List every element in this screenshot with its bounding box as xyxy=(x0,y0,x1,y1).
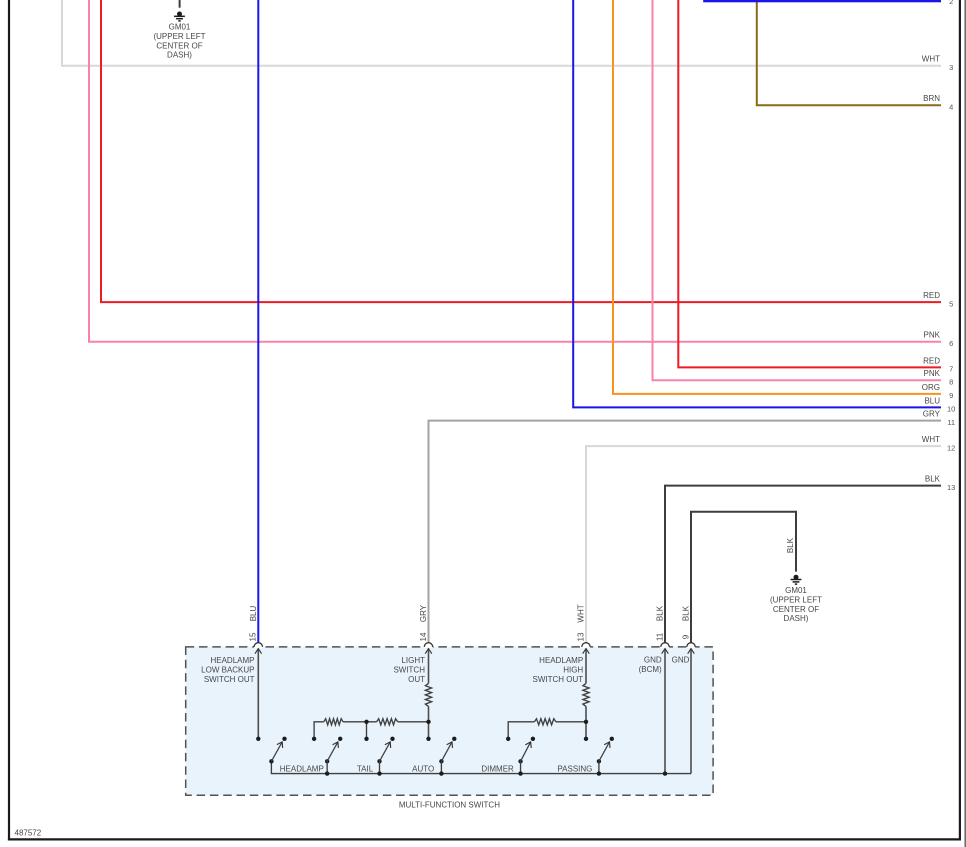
svg-text:3: 3 xyxy=(949,63,953,72)
junction bottom rail S3 auto xyxy=(377,771,381,775)
wire BLU row10 xyxy=(573,0,941,407)
svg-text:GM01: GM01 xyxy=(785,586,807,595)
svg-text:(UPPER LEFT: (UPPER LEFT xyxy=(153,32,205,41)
junction rail1 A xyxy=(364,720,368,724)
svg-text:RED: RED xyxy=(923,291,940,300)
switch S6 flash contact left xyxy=(584,737,588,741)
junction bottom rail S2 tail xyxy=(325,771,329,775)
switch S2 tail pivot xyxy=(325,759,329,763)
switch S1 headlamp contact right xyxy=(282,737,286,741)
wire BLU row2 bar xyxy=(703,0,941,2)
switch S3 auto lever xyxy=(380,742,391,761)
svg-text:6: 6 xyxy=(949,339,953,348)
switch S4 dimmer contact right xyxy=(452,737,456,741)
connector pin 15 bump xyxy=(254,646,262,648)
junction bottom rail pin11 xyxy=(663,771,667,775)
pin 14 internal wire lower xyxy=(428,706,430,738)
svg-text:GND: GND xyxy=(644,656,662,665)
svg-text:PNK: PNK xyxy=(924,331,941,340)
svg-text:11: 11 xyxy=(655,632,664,641)
svg-text:RED: RED xyxy=(923,356,940,365)
svg-text:HEADLAMP: HEADLAMP xyxy=(539,656,583,665)
svg-text:GM01: GM01 xyxy=(169,23,191,32)
svg-text:WHT: WHT xyxy=(577,604,586,622)
svg-text:2: 2 xyxy=(949,0,953,6)
wire ORG row9 xyxy=(613,0,941,394)
pin 13 internal wire lower xyxy=(585,706,587,738)
connector pin 14 bump xyxy=(424,646,432,648)
outer page edge right xyxy=(964,0,966,847)
switch S1 headlamp contact left xyxy=(256,737,260,741)
page border bottom xyxy=(8,838,961,840)
switch S1 headlamp pivot xyxy=(269,759,273,763)
pin 15 internal wire xyxy=(257,649,259,739)
wire rail1 right xyxy=(398,721,429,723)
svg-text:5: 5 xyxy=(949,299,953,308)
svg-text:DASH): DASH) xyxy=(167,51,192,60)
svg-text:(UPPER LEFT: (UPPER LEFT xyxy=(770,595,822,604)
svg-text:AUTO: AUTO xyxy=(412,764,434,773)
wire WHT row12 xyxy=(586,446,941,647)
svg-text:8: 8 xyxy=(949,378,953,387)
wire rail1 stub down xyxy=(366,722,368,739)
svg-text:7: 7 xyxy=(949,365,953,374)
svg-text:WHT: WHT xyxy=(922,435,940,444)
svg-text:MULTI-FUNCTION SWITCH: MULTI-FUNCTION SWITCH xyxy=(399,801,500,810)
resistor R3 horizontal xyxy=(324,719,343,725)
svg-text:BLU: BLU xyxy=(249,605,258,621)
wire BLK row13 xyxy=(665,486,941,647)
switch S3 auto pivot stub xyxy=(379,761,381,773)
wire rail2 left stub xyxy=(508,722,534,739)
svg-text:CENTER OF: CENTER OF xyxy=(773,605,819,614)
switch S4 dimmer pivot stub xyxy=(440,761,442,773)
wire bottom rail xyxy=(271,761,691,773)
switch S6 flash pivot stub xyxy=(598,761,600,773)
wire RED row7 xyxy=(678,0,941,367)
svg-text:PNK: PNK xyxy=(924,369,941,378)
switch S2 tail contact left xyxy=(312,737,316,741)
wire BRN row4 xyxy=(757,0,941,105)
switch S4 dimmer contact left xyxy=(426,737,430,741)
wire PNK row6 xyxy=(89,0,941,342)
junction bottom rail S4 dimmer xyxy=(439,771,443,775)
svg-text:LIGHT: LIGHT xyxy=(401,656,425,665)
svg-text:9: 9 xyxy=(681,634,690,639)
connector pin 13 bump xyxy=(582,646,590,648)
wire GRY row11 xyxy=(429,421,942,647)
ground GM01 right symbol xyxy=(794,575,799,580)
wire BLU pin15 xyxy=(257,0,259,647)
switch S6 flash contact right xyxy=(610,737,614,741)
wire rail1 left stub xyxy=(314,722,324,739)
wire rail2 right xyxy=(556,721,586,723)
svg-text:SWITCH OUT: SWITCH OUT xyxy=(533,675,584,684)
svg-text:GRY: GRY xyxy=(923,410,941,419)
connector pin 11 bump xyxy=(661,646,669,648)
svg-text:13: 13 xyxy=(576,632,585,641)
wire BLK to top GM01 xyxy=(179,0,181,8)
svg-text:14: 14 xyxy=(419,632,428,641)
junction bottom rail S5 passing xyxy=(518,771,522,775)
wire PNK row8 xyxy=(653,0,942,380)
switch S2 tail lever xyxy=(327,742,338,761)
resistor R5 horizontal xyxy=(534,719,556,725)
wire rail1 mid xyxy=(343,721,377,723)
pin 14 internal wire upper xyxy=(428,649,430,684)
resistor R1 vertical light switch xyxy=(425,683,431,706)
wire WHT row3 xyxy=(62,0,941,66)
switch S5 passing pivot xyxy=(518,759,522,763)
switch S5 passing pivot stub xyxy=(520,761,522,773)
svg-text:13: 13 xyxy=(947,483,955,492)
junction rail2 xyxy=(584,720,588,724)
svg-text:ORG: ORG xyxy=(922,383,940,392)
junction rail1 B xyxy=(426,720,430,724)
resistor R2 vertical headlamp high xyxy=(583,683,589,706)
page border right xyxy=(959,0,961,841)
svg-text:BLK: BLK xyxy=(682,605,691,621)
svg-text:HEADLAMP: HEADLAMP xyxy=(280,764,324,773)
wire RED row5 xyxy=(101,0,941,302)
svg-text:WHT: WHT xyxy=(922,55,940,64)
svg-text:12: 12 xyxy=(947,443,955,452)
svg-text:SWITCH: SWITCH xyxy=(393,666,425,675)
pin 13 internal wire upper xyxy=(585,649,587,684)
svg-text:BRN: BRN xyxy=(923,94,940,103)
svg-text:BLK: BLK xyxy=(925,475,941,484)
svg-text:BLK: BLK xyxy=(786,537,795,553)
switch S2 tail contact right xyxy=(338,737,342,741)
svg-text:11: 11 xyxy=(947,418,955,427)
svg-text:HIGH: HIGH xyxy=(563,666,583,675)
svg-text:9: 9 xyxy=(949,391,953,400)
svg-text:CENTER OF: CENTER OF xyxy=(156,41,202,50)
pin 9 internal wire xyxy=(690,649,692,774)
switch S3 auto contact right xyxy=(390,737,394,741)
wire BLK pin9 to GM01 xyxy=(691,512,796,647)
switch S6 flash pivot xyxy=(597,759,601,763)
svg-text:4: 4 xyxy=(949,102,953,111)
multi-function switch box xyxy=(186,647,713,795)
svg-text:TAIL: TAIL xyxy=(357,764,374,773)
switch S1 headlamp lever xyxy=(271,742,282,761)
svg-text:10: 10 xyxy=(947,405,955,414)
svg-text:DIMMER: DIMMER xyxy=(481,764,514,773)
switch S2 tail pivot stub xyxy=(326,761,328,773)
switch S6 flash lever xyxy=(599,742,610,761)
svg-text:GND: GND xyxy=(672,656,690,665)
svg-text:487572: 487572 xyxy=(15,829,42,838)
junction bottom rail S6 flash xyxy=(597,771,601,775)
ground GM01 top-left symbol xyxy=(177,12,182,17)
switch S4 dimmer lever xyxy=(441,742,452,761)
switch S5 passing contact right xyxy=(531,737,535,741)
switch S5 passing lever xyxy=(521,742,531,761)
svg-text:BLU: BLU xyxy=(924,396,940,405)
switch S5 passing contact left xyxy=(506,737,510,741)
resistor R4 horizontal xyxy=(377,719,398,725)
svg-text:BLK: BLK xyxy=(656,605,665,621)
svg-text:SWITCH OUT: SWITCH OUT xyxy=(204,675,255,684)
svg-text:OUT: OUT xyxy=(408,675,425,684)
svg-text:(BCM): (BCM) xyxy=(639,665,662,674)
svg-text:HEADLAMP: HEADLAMP xyxy=(210,656,254,665)
svg-text:PASSING: PASSING xyxy=(557,764,592,773)
switch S4 dimmer pivot xyxy=(439,759,443,763)
svg-text:15: 15 xyxy=(249,632,258,641)
svg-text:LOW BACKUP: LOW BACKUP xyxy=(201,666,254,675)
pin 11 internal wire xyxy=(664,649,666,774)
svg-text:GRY: GRY xyxy=(419,604,428,622)
switch S3 auto contact left xyxy=(364,737,368,741)
switch S3 auto pivot xyxy=(377,759,381,763)
page border left xyxy=(8,0,10,841)
connector pin 9 bump xyxy=(687,646,695,648)
svg-text:DASH): DASH) xyxy=(784,614,809,623)
